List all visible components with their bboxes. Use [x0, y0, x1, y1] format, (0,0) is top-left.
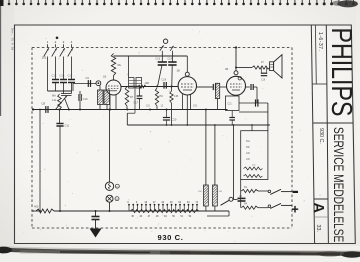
svg-text:930 C.: 930 C.: [158, 233, 184, 242]
